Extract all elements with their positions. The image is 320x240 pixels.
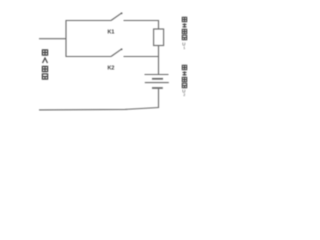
wire: right branch upper vertical (to resistor) bbox=[158, 20, 160, 30]
wire: battery negative to bottom return bbox=[158, 88, 160, 108]
label: 输入电压 (input voltage), vertical column of 4 CJK glyph marks bbox=[42, 50, 47, 79]
svg-text:1: 1 bbox=[183, 46, 185, 50]
switch K1 (open blade with tip dot) bbox=[111, 12, 123, 20]
wire: top branch, right segment bbox=[124, 20, 160, 22]
wire: bottom branch, left segment bbox=[66, 56, 111, 58]
switch K2 (open blade with tip dot) bbox=[111, 48, 123, 56]
wire: right branch vertical (resistor to battery, through bottom-branch junction) bbox=[158, 46, 160, 75]
label: 输出电压U2 (output voltage 2), vertical column right of battery bbox=[182, 65, 186, 97]
wire: bottom return (right to left terminal) bbox=[39, 108, 159, 110]
svg-text:K2: K2 bbox=[108, 66, 115, 72]
battery E (two cells: long/short plates) bbox=[145, 75, 169, 89]
svg-text:2: 2 bbox=[183, 93, 185, 97]
wire: input lead (left terminal to left vertical) bbox=[39, 38, 67, 40]
resistor R (box) bbox=[154, 29, 164, 46]
wire: top branch, left segment bbox=[66, 20, 112, 22]
svg-text:K1: K1 bbox=[108, 30, 115, 36]
wire: left vertical of switch loop bbox=[65, 20, 67, 57]
wire: bottom branch, right segment (to node on right branch) bbox=[124, 56, 160, 58]
label: 输出电压U1 (output voltage 1), vertical column right of resistor bbox=[182, 17, 186, 50]
